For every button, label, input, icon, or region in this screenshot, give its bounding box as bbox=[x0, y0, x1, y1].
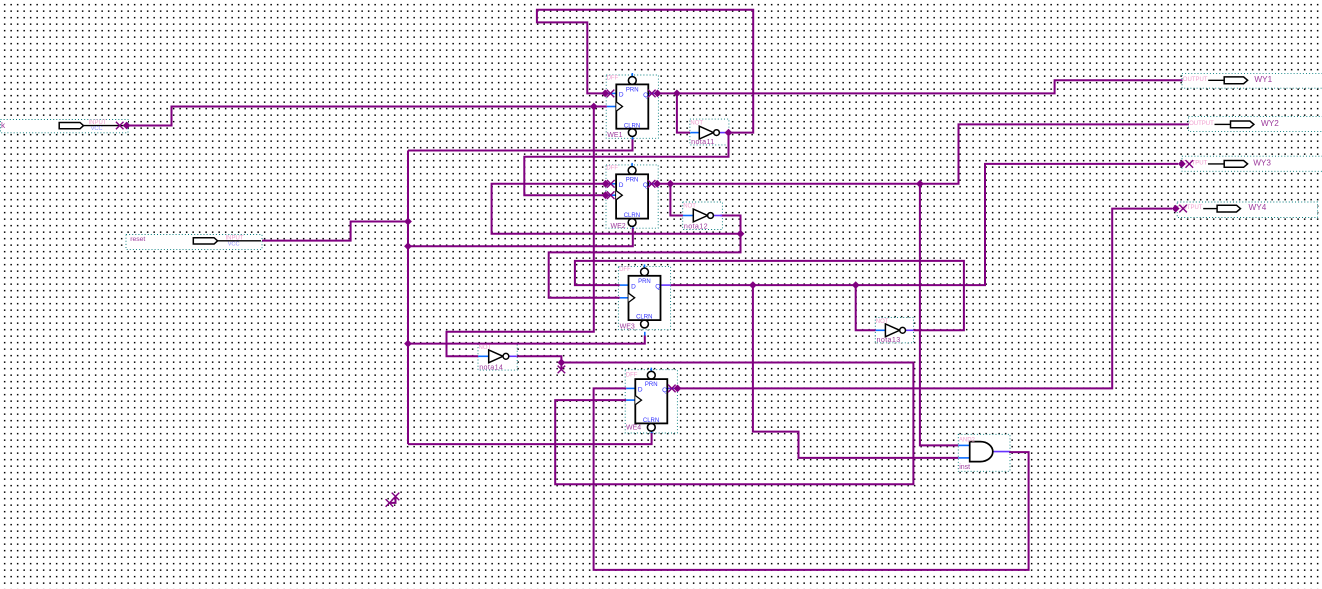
junction k at WE1 clock bbox=[590, 103, 598, 111]
svg-text:CLRN: CLRN bbox=[624, 123, 640, 129]
svg-text:Q: Q bbox=[655, 284, 660, 291]
output port WY2 selection box bbox=[1189, 117, 1322, 132]
input port reset pin symbol bbox=[193, 238, 217, 244]
wire net Q3 to output WY3 bbox=[671, 164, 1178, 285]
wire net D4: AND2 output loop to WE4 D input bbox=[594, 388, 1029, 570]
svg-text:VCC: VCC bbox=[91, 126, 103, 132]
svg-text:PRN: PRN bbox=[638, 279, 651, 285]
stub WE2 D input bbox=[606, 183, 617, 185]
wire net reset branch to WE3 CLRN bbox=[408, 335, 645, 343]
svg-text:PRN: PRN bbox=[626, 87, 639, 93]
stub WE3 Q output bbox=[661, 284, 671, 286]
inverter nota11 bubble bbox=[714, 130, 720, 136]
svg-text:OUTPUT: OUTPUT bbox=[1183, 77, 1208, 83]
wire net reset branch to WE1 CLRN bbox=[408, 139, 633, 151]
junction nota11 output bbox=[725, 129, 733, 137]
input port reset connector line bbox=[218, 240, 261, 242]
stub WE1 D input bbox=[605, 92, 616, 94]
stub WE4 clock input bbox=[626, 399, 635, 401]
wire net k: vertical drop to nota14 input bbox=[447, 107, 594, 357]
junction WE1 Q pin bbox=[654, 90, 662, 98]
stub WE1 Q output bbox=[648, 92, 657, 94]
x-mark WE4 Q pin bbox=[668, 385, 676, 393]
svg-text:CLRN: CLRN bbox=[636, 315, 652, 321]
output port WY4 pin symbol bbox=[1217, 205, 1240, 212]
junction output WY4 bbox=[1172, 205, 1180, 213]
x-mark WE2 Q pin bbox=[648, 180, 656, 188]
junction reset to WE2 CLRN bbox=[404, 242, 412, 250]
svg-text:OUTPUT: OUTPUT bbox=[1189, 121, 1214, 127]
svg-text:DFF: DFF bbox=[607, 76, 619, 82]
svg-text:nota11: nota11 bbox=[691, 137, 715, 146]
stub WE4 D input bbox=[626, 387, 635, 389]
flip-flop WE3 PRN bubble bbox=[641, 268, 649, 276]
wire net k: input to WE1 clock bbox=[127, 107, 607, 126]
junction Q1 to nota11 bbox=[673, 90, 681, 98]
inverter nota12 bubble bbox=[708, 213, 714, 219]
x-mark k input bbox=[116, 122, 124, 130]
input port k selection box bbox=[1, 120, 129, 133]
inverter nota12 output stub bbox=[711, 215, 723, 217]
svg-text:WE2: WE2 bbox=[611, 223, 626, 230]
svg-text:nota12: nota12 bbox=[684, 222, 708, 231]
output port WY1 pin symbol bbox=[1224, 77, 1247, 84]
flip-flop WE1 CLRN bubble bbox=[628, 129, 636, 137]
wire net D2: nota12 output down bbox=[721, 216, 741, 234]
output port WY3 connector line bbox=[1208, 163, 1224, 165]
flip-flop WE3 clock triangle bbox=[629, 293, 635, 302]
inverter nota14 bubble bbox=[503, 353, 509, 359]
flip-flop WE2 selection box bbox=[606, 165, 658, 228]
svg-text:Q: Q bbox=[643, 182, 648, 189]
AND gate inst selection box bbox=[958, 434, 1010, 471]
flip-flop WE4 body bbox=[635, 379, 667, 423]
junction WE2 Q pin bbox=[653, 180, 661, 188]
flip-flop WE2 clock triangle bbox=[616, 191, 622, 200]
wire net Q1 to output WY1 bbox=[658, 80, 1183, 93]
inverter nota14 output stub bbox=[506, 355, 517, 357]
inverter nota11 input stub bbox=[690, 132, 699, 134]
svg-text:WY2: WY2 bbox=[1261, 119, 1279, 128]
svg-text:DFF: DFF bbox=[619, 267, 631, 273]
output port WY3 selection box bbox=[1182, 156, 1322, 171]
stub WE1 CLRN bbox=[632, 136, 634, 140]
inverter nota13 output stub bbox=[903, 329, 914, 331]
svg-text:NOT: NOT bbox=[876, 319, 889, 325]
flip-flop WE1 clock triangle bbox=[616, 102, 622, 111]
svg-text:NOT: NOT bbox=[690, 121, 703, 127]
junction Q3 to AND2 bbox=[749, 281, 757, 289]
wire net Q2 branch to AND2 input 1 bbox=[920, 184, 958, 446]
inverter nota11 output stub bbox=[717, 132, 729, 134]
flip-flop WE3 CLRN bubble bbox=[641, 320, 649, 328]
svg-text:PRN: PRN bbox=[645, 382, 658, 388]
wire net reset trunk vertical bbox=[407, 151, 409, 445]
svg-text:NOT: NOT bbox=[683, 203, 696, 209]
flip-flop WE1 PRN bubble bbox=[628, 77, 636, 85]
junction k input bbox=[123, 122, 131, 130]
junction Q2 to nota12 bbox=[667, 180, 675, 188]
wire net reset: input pin to trunk bbox=[262, 222, 408, 241]
junction output WY3 bbox=[1178, 160, 1186, 168]
stub WE1 clock input bbox=[607, 106, 617, 108]
x-mark WE2 clock pin bbox=[607, 191, 615, 199]
flip-flop WE4 PRN bubble bbox=[647, 371, 655, 379]
inverter nota12 input stub bbox=[683, 215, 693, 217]
junction nota14 output bbox=[558, 359, 566, 367]
wire net D2 to WE2 D input bbox=[492, 184, 741, 234]
inverter nota13 triangle bbox=[885, 324, 899, 337]
svg-text:PRN: PRN bbox=[626, 177, 639, 183]
x-mark WE1 Q pin bbox=[648, 90, 656, 98]
inverter nota14 input stub bbox=[478, 355, 488, 357]
flip-flop WE3 selection box bbox=[618, 266, 670, 329]
inverter nota13 selection box bbox=[875, 318, 913, 343]
wire net reset branch to WE4 CLRN bbox=[408, 433, 652, 445]
inverter nota11 triangle bbox=[699, 126, 713, 139]
inverter nota13 input stub bbox=[876, 329, 886, 331]
svg-text:D: D bbox=[638, 387, 643, 394]
flip-flop WE4 clock triangle bbox=[635, 396, 641, 405]
x-mark output WY4 bbox=[1179, 205, 1187, 213]
flip-flop WE4 selection box bbox=[625, 370, 677, 433]
wire net Q2 branch to nota12 input bbox=[670, 184, 683, 216]
flip-flop WE2 CLRN bubble bbox=[628, 219, 636, 227]
svg-text:reset: reset bbox=[130, 236, 145, 243]
wire net reset branch to WE2 CLRN bbox=[408, 228, 633, 247]
svg-text:VCC: VCC bbox=[228, 241, 240, 247]
wire net CLK4 dangling stub bbox=[560, 363, 562, 369]
output port WY4 selection box bbox=[1177, 202, 1317, 218]
wire net D2 branch to WE3 clock bbox=[549, 234, 741, 298]
svg-text:WE1: WE1 bbox=[607, 132, 622, 139]
flip-flop WE1 body bbox=[616, 84, 648, 128]
wire net Q2 to output WY2 bbox=[657, 124, 1189, 183]
input port k pin symbol bbox=[59, 122, 83, 128]
svg-text:D: D bbox=[631, 283, 636, 290]
stub WE3 CLRN bbox=[644, 332, 646, 336]
flip-flop WE3 body bbox=[629, 276, 661, 320]
wire net Q1 branch to nota11 input bbox=[677, 93, 690, 132]
AND gate inst input stubs bbox=[959, 444, 970, 446]
flip-flop WE2 body bbox=[616, 174, 648, 218]
stub WE4 Q output bbox=[667, 387, 677, 389]
svg-text:WE3: WE3 bbox=[620, 324, 635, 331]
svg-text:inst: inst bbox=[959, 464, 970, 471]
output port WY2 pin symbol bbox=[1231, 121, 1254, 128]
input port reset selection box bbox=[126, 235, 262, 250]
svg-text:INPUT: INPUT bbox=[226, 235, 244, 241]
x-mark output WY3 bbox=[1186, 160, 1194, 168]
x-mark WE1 D pin bbox=[607, 90, 615, 98]
svg-text:WY3: WY3 bbox=[1253, 159, 1271, 168]
wire stray unconnected fragment bbox=[389, 496, 395, 503]
wire net D1 branch to WE2 clock bbox=[524, 133, 728, 196]
flip-flop WE2 PRN bubble bbox=[628, 167, 636, 175]
wire net D3: nota13 output to WE3 D input bbox=[575, 261, 964, 330]
junction nota12 output at WE2 D net bbox=[737, 230, 745, 238]
junction WE4 Q pin bbox=[674, 385, 682, 393]
AND gate inst output stub bbox=[993, 451, 1010, 453]
stub WE3 clock input bbox=[620, 297, 629, 299]
stub WE3 D input bbox=[620, 284, 629, 286]
junction WE2 clock pin bbox=[602, 191, 610, 199]
svg-text:D: D bbox=[619, 92, 624, 99]
flip-flop WE4 PRN stub bbox=[650, 368, 652, 372]
svg-text:NOT: NOT bbox=[479, 345, 492, 351]
input port k connector line bbox=[84, 125, 128, 127]
output port WY4 connector line bbox=[1203, 208, 1217, 210]
svg-text:DFF: DFF bbox=[626, 372, 638, 378]
flip-flop WE3 PRN stub bbox=[644, 264, 646, 268]
svg-text:DFF: DFF bbox=[606, 166, 618, 172]
inverter nota14 triangle bbox=[489, 350, 503, 363]
wire net Q4 to output WY4 bbox=[678, 209, 1173, 389]
inverter nota12 triangle bbox=[693, 209, 707, 222]
svg-text:WY4: WY4 bbox=[1249, 203, 1267, 212]
AND gate inst body bbox=[970, 442, 993, 462]
flip-flop WE1 selection box bbox=[606, 75, 658, 138]
inverter nota13 bubble bbox=[900, 327, 906, 333]
output port WY1 connector line bbox=[1208, 79, 1224, 81]
svg-text:nota13: nota13 bbox=[877, 335, 901, 344]
wire net Q3 branch to nota13 input bbox=[856, 285, 876, 330]
x-mark stray fragment left bbox=[386, 499, 394, 507]
svg-text:D: D bbox=[619, 182, 624, 189]
wire net CLK4 to WE4 clock bbox=[555, 363, 913, 485]
junction Q3 to nota13 bbox=[852, 281, 860, 289]
junction reset input bbox=[404, 218, 412, 226]
flip-flop WE2 PRN stub bbox=[631, 163, 633, 167]
inverter nota11 selection box bbox=[690, 119, 729, 145]
svg-text:CLRN: CLRN bbox=[624, 213, 640, 219]
stub WE2 clock input bbox=[606, 194, 617, 196]
svg-text:WY1: WY1 bbox=[1254, 75, 1272, 84]
output port WY2 connector line bbox=[1215, 123, 1231, 125]
x-mark stray fragment top bbox=[392, 493, 400, 501]
flip-flop WE4 CLRN bubble bbox=[647, 423, 655, 431]
inverter nota12 selection box bbox=[683, 202, 723, 230]
junction WE1 D pin bbox=[601, 90, 609, 98]
svg-text:nota14: nota14 bbox=[479, 362, 503, 371]
inverter nota14 selection box bbox=[478, 343, 517, 370]
svg-text:AND2: AND2 bbox=[959, 437, 976, 443]
output port WY1 selection box bbox=[1182, 73, 1322, 88]
svg-text:WE4: WE4 bbox=[626, 425, 641, 432]
x-mark WE2 D pin bbox=[607, 180, 615, 188]
stub WE2 CLRN bbox=[632, 225, 634, 229]
output port WY3 pin symbol bbox=[1224, 161, 1247, 168]
wire net CLK4: nota14 output down bbox=[517, 356, 561, 362]
x-mark nota14 dangling stub bbox=[558, 366, 566, 374]
flip-flop WE1 PRN stub bbox=[631, 73, 633, 77]
svg-text:INPUT: INPUT bbox=[89, 120, 107, 126]
wire net D1: nota11 output loop to WE1 D bbox=[537, 10, 753, 133]
svg-text:Q: Q bbox=[643, 92, 648, 99]
junction reset to WE3 CLRN bbox=[404, 340, 412, 348]
wire net Q3 branch to AND2 input 2 bbox=[753, 285, 958, 458]
svg-text:Q: Q bbox=[662, 387, 667, 394]
junction WE2 D pin bbox=[602, 180, 610, 188]
junction Q2 to AND2 bbox=[916, 180, 924, 188]
svg-text:CLRN: CLRN bbox=[643, 418, 659, 424]
stub WE2 Q output bbox=[648, 183, 657, 185]
stub WE4 CLRN bbox=[651, 429, 653, 433]
